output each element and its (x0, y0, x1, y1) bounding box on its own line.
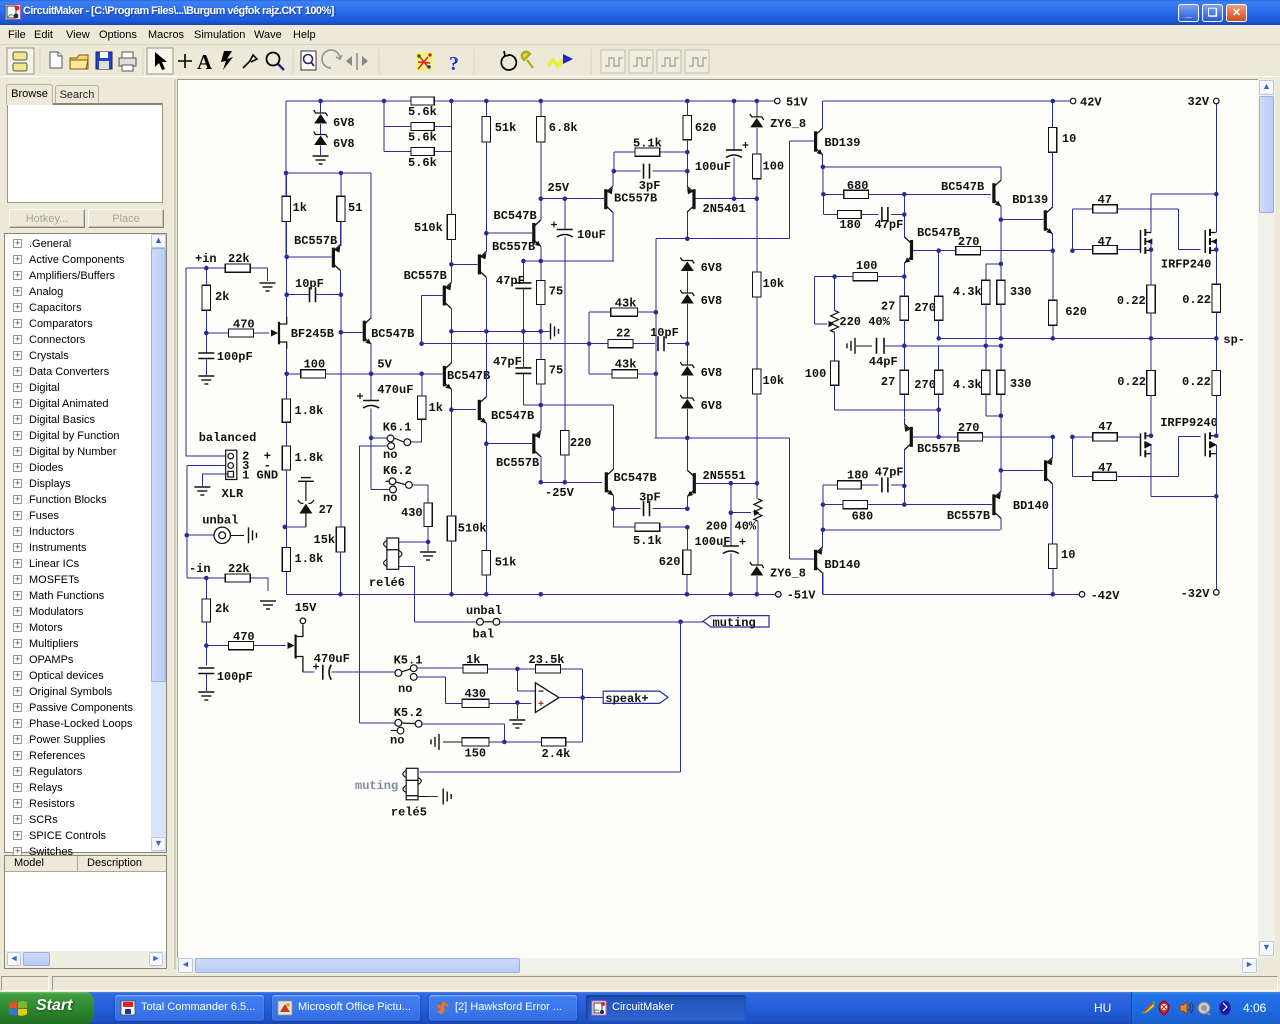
svg-text:47: 47 (1098, 420, 1112, 434)
wire K6.2 to 430 (412, 485, 428, 503)
wire 43k left spine (588, 312, 590, 374)
wire base Q4 drop (421, 295, 423, 343)
zener diode 27 (298, 478, 314, 527)
wire XLR pin1 to ground (202, 474, 228, 486)
zener diode 6V8 (stack 3) (680, 362, 694, 376)
wire row y437 (655, 437, 790, 439)
svg-text:K5.1: K5.1 (394, 654, 423, 668)
node source M1 (1149, 247, 1154, 252)
wire collector Q7 (540, 457, 542, 483)
resistor 23.5k (535, 665, 560, 673)
transistor BC547B (Q8) (605, 469, 614, 495)
wire (488, 668, 518, 670)
wire 5.6k row3 (384, 151, 451, 153)
wire (205, 359, 207, 376)
relay rele5 coil (403, 768, 421, 800)
svg-text:430: 430 (401, 506, 423, 520)
svg-text:muting: muting (355, 779, 398, 793)
wire feedback row (489, 741, 542, 743)
node unbal (185, 533, 190, 538)
svg-text:47pF: 47pF (875, 466, 904, 480)
wire 330 upper legs (1000, 264, 1002, 339)
svg-text:5V: 5V (377, 358, 392, 372)
wire (1072, 208, 1092, 210)
resistor 10 (bottom) (1049, 544, 1057, 569)
resistor 5.6k (2) (411, 122, 434, 130)
svg-text:430: 430 (465, 687, 487, 701)
wire 5.6k right leg / to 510k (450, 101, 452, 215)
svg-text:100pF: 100pF (217, 670, 253, 684)
wire (450, 239, 452, 264)
wire to K5.2 (360, 722, 395, 724)
wire 15k to bus (340, 552, 342, 594)
wire 23.5k loop (517, 669, 582, 698)
svg-text:2k: 2k (215, 602, 229, 616)
node +in (204, 266, 209, 271)
wire 3pF left (614, 170, 641, 172)
svg-text:470: 470 (233, 630, 255, 644)
node y405 (539, 403, 544, 408)
svg-text:1k: 1k (429, 401, 443, 415)
svg-text:0.22: 0.22 (1182, 293, 1211, 307)
wire K6.1-no to K5.2 (360, 446, 388, 723)
transistor BC557B (Q1) (332, 245, 341, 271)
wire 0.22 u1 legs (1150, 250, 1152, 339)
node base Q3 (449, 262, 454, 267)
wire to -32V (1215, 496, 1217, 589)
svg-text:100uF: 100uF (695, 535, 731, 549)
svg-text:100: 100 (304, 358, 326, 372)
mosfet IRFP9240 (1) (1141, 432, 1153, 457)
wire base Q12 (868, 193, 991, 195)
switch unbal/bal (477, 618, 500, 625)
svg-text:270: 270 (914, 301, 936, 315)
wire collector Q4 (450, 309, 452, 332)
wire 47 corner (1071, 209, 1073, 251)
svg-text:5.1k: 5.1k (633, 137, 662, 151)
svg-text:unbal: unbal (466, 604, 502, 618)
resistor 51k (lower) (482, 550, 490, 575)
wire base Q17 (868, 504, 993, 506)
wire zener to 1.8k chain (285, 526, 306, 528)
svg-text:-32V: -32V (1181, 587, 1211, 601)
wire collector Q2 (370, 173, 372, 318)
svg-text:BC557B: BC557B (404, 269, 447, 283)
svg-text:100pF: 100pF (217, 350, 253, 364)
wire (756, 199, 758, 272)
svg-text:470: 470 (233, 318, 255, 332)
transistor BD139 (driver top) (814, 128, 823, 154)
wire rele5 bottom (418, 796, 428, 798)
resistor 680 (bottom) (843, 501, 868, 509)
wire 43k2 right (637, 373, 656, 375)
node base Q9 (484, 231, 489, 236)
wire wiper 200 (731, 512, 751, 514)
wire 330 lower legs (1000, 346, 1002, 416)
wire 1k top (421, 374, 423, 396)
svg-text:47: 47 (1098, 193, 1112, 207)
node y343 (419, 341, 424, 346)
wire collector Q9 (540, 199, 542, 220)
wire (205, 310, 207, 333)
wire to K5.1 (331, 671, 395, 673)
resistor 470 (+in) (228, 329, 253, 337)
wire (320, 101, 322, 113)
terminal 51V (775, 98, 781, 104)
svg-text:0.22: 0.22 (1117, 294, 1146, 308)
wire relay6 coil top (399, 541, 428, 543)
wire 270 row (939, 250, 1053, 252)
wire 15k chain (340, 332, 342, 527)
svg-text:BD140: BD140 (1013, 499, 1049, 513)
wire 3pF2 right (653, 508, 688, 510)
wire wiper drop (730, 483, 732, 512)
svg-text:270: 270 (958, 235, 980, 249)
node relay6 (426, 540, 431, 545)
svg-text:BC547B: BC547B (941, 180, 984, 194)
wire collector Q14 (1051, 152, 1053, 207)
ground (XLR) (194, 487, 210, 495)
wire (891, 484, 904, 486)
transistor BD140 (Q15) (1044, 457, 1053, 484)
svg-text:BD139: BD139 (1012, 193, 1048, 207)
resistor 0.22 (u1) (1147, 285, 1155, 313)
wire base Q9 (486, 232, 532, 234)
svg-text:680: 680 (847, 179, 869, 193)
wire 51V rail (286, 100, 774, 102)
zener diode 6V8 (stack 4) (680, 395, 694, 409)
wire 43k2 left (589, 373, 612, 375)
wire drain M1 (1150, 194, 1152, 233)
svg-text:47pF: 47pF (496, 274, 525, 288)
svg-text:6.8k: 6.8k (549, 121, 578, 135)
svg-text:no: no (390, 734, 404, 748)
svg-text:6V8: 6V8 (701, 399, 723, 413)
svg-text:270: 270 (914, 378, 936, 392)
wire 10 to Q14 (1052, 101, 1054, 208)
switch K6.1 (387, 435, 411, 446)
ground (-in 22k) (260, 601, 276, 609)
svg-text:23.5k: 23.5k (529, 653, 565, 667)
wire 5.1k2 left (613, 509, 635, 528)
svg-text:75: 75 (549, 285, 563, 299)
resistor 4.3k (upper) (982, 280, 990, 304)
svg-text:no: no (383, 491, 397, 505)
resistor 43k (2) (612, 370, 638, 378)
node y343 zener (685, 341, 690, 346)
node y214 (902, 212, 907, 217)
wire through 51 (340, 173, 342, 246)
terminal -51V (776, 592, 782, 598)
svg-text:0.22: 0.22 (1182, 375, 1211, 389)
resistor 22k (+in) (225, 264, 250, 272)
wire (667, 343, 687, 345)
svg-text:K6.1: K6.1 (383, 421, 412, 435)
wire 42V rail (823, 100, 1070, 102)
nodes y504 (821, 502, 907, 507)
svg-text:180: 180 (839, 218, 861, 232)
wire base 2N5551 (696, 482, 757, 484)
wire 270 v upper legs (938, 251, 940, 339)
wire K5.1 to 1k (417, 667, 463, 669)
wire row y529 (823, 529, 1000, 531)
node emitter BD139 (821, 165, 826, 170)
svg-text:IRFP240: IRFP240 (1161, 258, 1211, 272)
transistor BF245B (JFET upper) (279, 317, 287, 349)
svg-text:4.3k: 4.3k (953, 285, 982, 299)
wire emitter Q5 (450, 389, 452, 410)
svg-text:BC547B: BC547B (371, 327, 414, 341)
wire 6.8k leg (540, 101, 542, 219)
svg-text:1.8k: 1.8k (295, 404, 324, 418)
svg-text:25V: 25V (548, 181, 570, 195)
wire emitter Q6 (485, 423, 487, 444)
svg-text:BC547B: BC547B (491, 409, 534, 423)
wire mid spine (655, 239, 657, 438)
svg-text:-in: -in (189, 562, 211, 576)
resistor 100 (zener) (753, 154, 761, 179)
switch K5.2 (395, 719, 422, 727)
node -42V (1051, 592, 1056, 597)
resistor 100 (v) (830, 361, 838, 385)
wire 10uF to 220 (564, 237, 566, 431)
wire (686, 376, 688, 398)
svg-text:IRFP9240: IRFP9240 (1160, 416, 1218, 430)
wire emitter Q16 (903, 418, 905, 424)
wire to BF245B2 gate (253, 645, 285, 647)
node base Q7 (484, 441, 489, 446)
wire (206, 332, 228, 334)
node base Q2 (339, 330, 344, 335)
capacitor 47pF (bottom row) (882, 477, 888, 492)
wire unbal row left (414, 621, 476, 623)
svg-text:15k: 15k (314, 533, 336, 547)
svg-text:6V8: 6V8 (333, 137, 355, 151)
resistor 150 (462, 738, 489, 746)
chassis ground (44pF) (847, 338, 855, 354)
flag speak+ (603, 691, 668, 703)
wire 32V drop (1215, 101, 1217, 194)
wire collector Q15 (1052, 484, 1054, 544)
capacitor 100uF (lower) (723, 539, 746, 554)
node base Q13 (936, 248, 941, 253)
svg-text:22: 22 (616, 327, 630, 341)
wire 5.1k left (614, 152, 635, 171)
nodes 100 row (832, 274, 906, 279)
wire 51k upper leg (485, 101, 487, 248)
wire emitter Q17 (1000, 470, 1002, 491)
svg-text:10pF: 10pF (295, 277, 324, 291)
svg-text:BC557B: BC557B (614, 192, 657, 206)
wire (1072, 436, 1092, 438)
wire rele6 to unbal row (399, 566, 415, 621)
ground (zener pair) (313, 156, 329, 164)
node muting (678, 620, 683, 625)
svg-text:47pF: 47pF (875, 218, 904, 232)
resistor 270 (row top) (956, 247, 981, 255)
svg-text:3pF: 3pF (639, 491, 661, 505)
wire 25V row (541, 198, 604, 200)
node feedback (502, 740, 507, 745)
wire 5.1k right (660, 151, 688, 153)
svg-text:27: 27 (881, 375, 895, 389)
wire (686, 527, 688, 550)
wire 75 upper legs (540, 261, 542, 331)
svg-text:sp-: sp- (1223, 333, 1245, 347)
nodes -25V row (539, 480, 568, 485)
nodes base row 2N5551 (729, 481, 760, 486)
wire source M2 (1215, 242, 1217, 250)
svg-text:BD140: BD140 (824, 558, 860, 572)
node 5.1k2 (685, 525, 690, 530)
wire collector Q3 (485, 277, 487, 331)
transistor BD140 (Q18) (814, 547, 823, 573)
resistor 47 (g3) (1093, 433, 1118, 441)
wire 680 bottom left (823, 504, 843, 506)
wire 180 left (823, 194, 837, 214)
capacitor 47pF (top row) (882, 207, 888, 222)
svg-text:51k: 51k (495, 121, 517, 135)
nodes opamp (515, 667, 585, 705)
terminal -32V (1214, 590, 1220, 596)
wire (822, 167, 824, 194)
wire 47pF upper bottom (522, 288, 524, 331)
node base Q15 (999, 468, 1004, 473)
svg-text:XLR: XLR (222, 487, 244, 501)
svg-text:330: 330 (1010, 377, 1032, 391)
svg-text:6V8: 6V8 (701, 366, 723, 380)
wire (756, 576, 758, 594)
wire 4.3k upper stub (986, 264, 1001, 280)
resistor 1.8k (1) (282, 399, 290, 422)
wire to BF245B gate (253, 332, 269, 334)
wire (756, 179, 758, 199)
wire (686, 575, 688, 595)
resistor 270 (v lower) (935, 370, 943, 394)
resistor 1.8k (2) (282, 446, 290, 470)
nodes 3pF2 (611, 506, 690, 511)
wire 4.3k lower legs (986, 346, 1001, 416)
wire (686, 409, 688, 438)
resistor 180 (top) (838, 210, 862, 218)
wire -42V rail (823, 573, 1079, 595)
wire to RCA (187, 534, 214, 536)
wire 5.6k left leg (383, 101, 385, 152)
svg-text:51: 51 (348, 201, 362, 215)
resistor 620 (upper) (683, 116, 691, 140)
transistor BC547B (Q12) (992, 180, 1001, 206)
wire 10 bottom leg (1052, 568, 1054, 594)
node y343 left (587, 341, 592, 346)
wire (891, 214, 904, 216)
wire (370, 409, 372, 438)
wire (205, 268, 207, 285)
transistor BC557B (Q4) (443, 283, 452, 309)
switch contact K5.2 no (397, 727, 404, 734)
wire left spine (822, 485, 824, 530)
wire emitter 2N5401 (686, 171, 688, 186)
resistor 51k (upper) (482, 117, 490, 143)
svg-text:muting: muting (713, 616, 756, 630)
resistor 5.1k (lower) (635, 523, 660, 531)
wire 47 g2 to gate1 (1117, 249, 1140, 251)
svg-text:5.6k: 5.6k (408, 156, 437, 170)
wire XLR pin3 down (187, 466, 226, 536)
svg-text:1k: 1k (293, 201, 307, 215)
wire K6.1 to 1k (411, 419, 422, 442)
node y409 (936, 408, 941, 413)
wire collector Q5 (450, 331, 452, 363)
wire base Q14 (1001, 219, 1044, 221)
node base Q16 (936, 435, 941, 440)
svg-text:6V8: 6V8 (333, 116, 355, 130)
resistor 5.6k (1) (411, 97, 434, 105)
wire collector BD139 (822, 101, 824, 128)
wire pot220 top (834, 277, 836, 311)
wire (428, 796, 438, 798)
resistor 330 (upper) (997, 280, 1005, 304)
wire collector Q12 (1000, 167, 1002, 180)
wire 1.8k to bus (285, 527, 288, 594)
node gate2 (204, 643, 209, 648)
resistor 51 (337, 196, 345, 221)
wire collector Q17 (1000, 518, 1002, 530)
wire base BC557B1 (287, 256, 332, 258)
wire collector Q13 stub (904, 237, 906, 238)
resistor 0.22 (l1) (1147, 371, 1155, 396)
junctions y261 (521, 259, 543, 264)
capacitor 100pF (+in) (198, 353, 214, 359)
nodes y437 right (1051, 435, 1075, 440)
resistor 5.6k (3) (411, 147, 434, 155)
svg-text:BC547B: BC547B (447, 369, 490, 383)
wire -25V row (541, 481, 602, 483)
wire (285, 470, 287, 527)
svg-text:BD139: BD139 (824, 136, 860, 150)
wire collector Q18 (822, 573, 824, 594)
svg-text:680: 680 (852, 510, 874, 524)
wire (205, 674, 207, 692)
wire K6.2-no to 470uF node (371, 438, 390, 490)
capacitor 470uF (lower) (313, 664, 331, 680)
resistor 15k (336, 527, 344, 552)
wire base Q2 (341, 331, 363, 333)
svg-text:47: 47 (1098, 461, 1112, 475)
transistor BC557B (Q16) (904, 424, 913, 450)
nodes y198 right (732, 196, 759, 201)
wire (427, 542, 429, 551)
potentiometer 200 40% (754, 499, 762, 521)
nodes 5V row (284, 372, 424, 377)
wire 10uF top (564, 199, 566, 230)
svg-text:2N5401: 2N5401 (703, 202, 746, 216)
node -in (204, 576, 209, 581)
svg-text:-25V: -25V (545, 486, 575, 500)
wire drain M4 (1215, 395, 1217, 435)
svg-text:6V8: 6V8 (701, 261, 723, 275)
svg-text:27: 27 (881, 300, 895, 314)
switch contact K6.1 no (388, 443, 395, 450)
zener diode ZY6_8 (upper) (750, 114, 764, 128)
node Q5 row (449, 407, 454, 412)
resistor 0.22 (u2) (1212, 284, 1220, 312)
resistor 430 (op-amp) (462, 699, 489, 707)
zener diode 6V8 (stack 1) (680, 258, 694, 272)
potentiometer 220 40% (831, 310, 839, 332)
wire 47 corner lower (1071, 437, 1073, 476)
wire (861, 484, 878, 486)
svg-text:10: 10 (1061, 548, 1075, 562)
